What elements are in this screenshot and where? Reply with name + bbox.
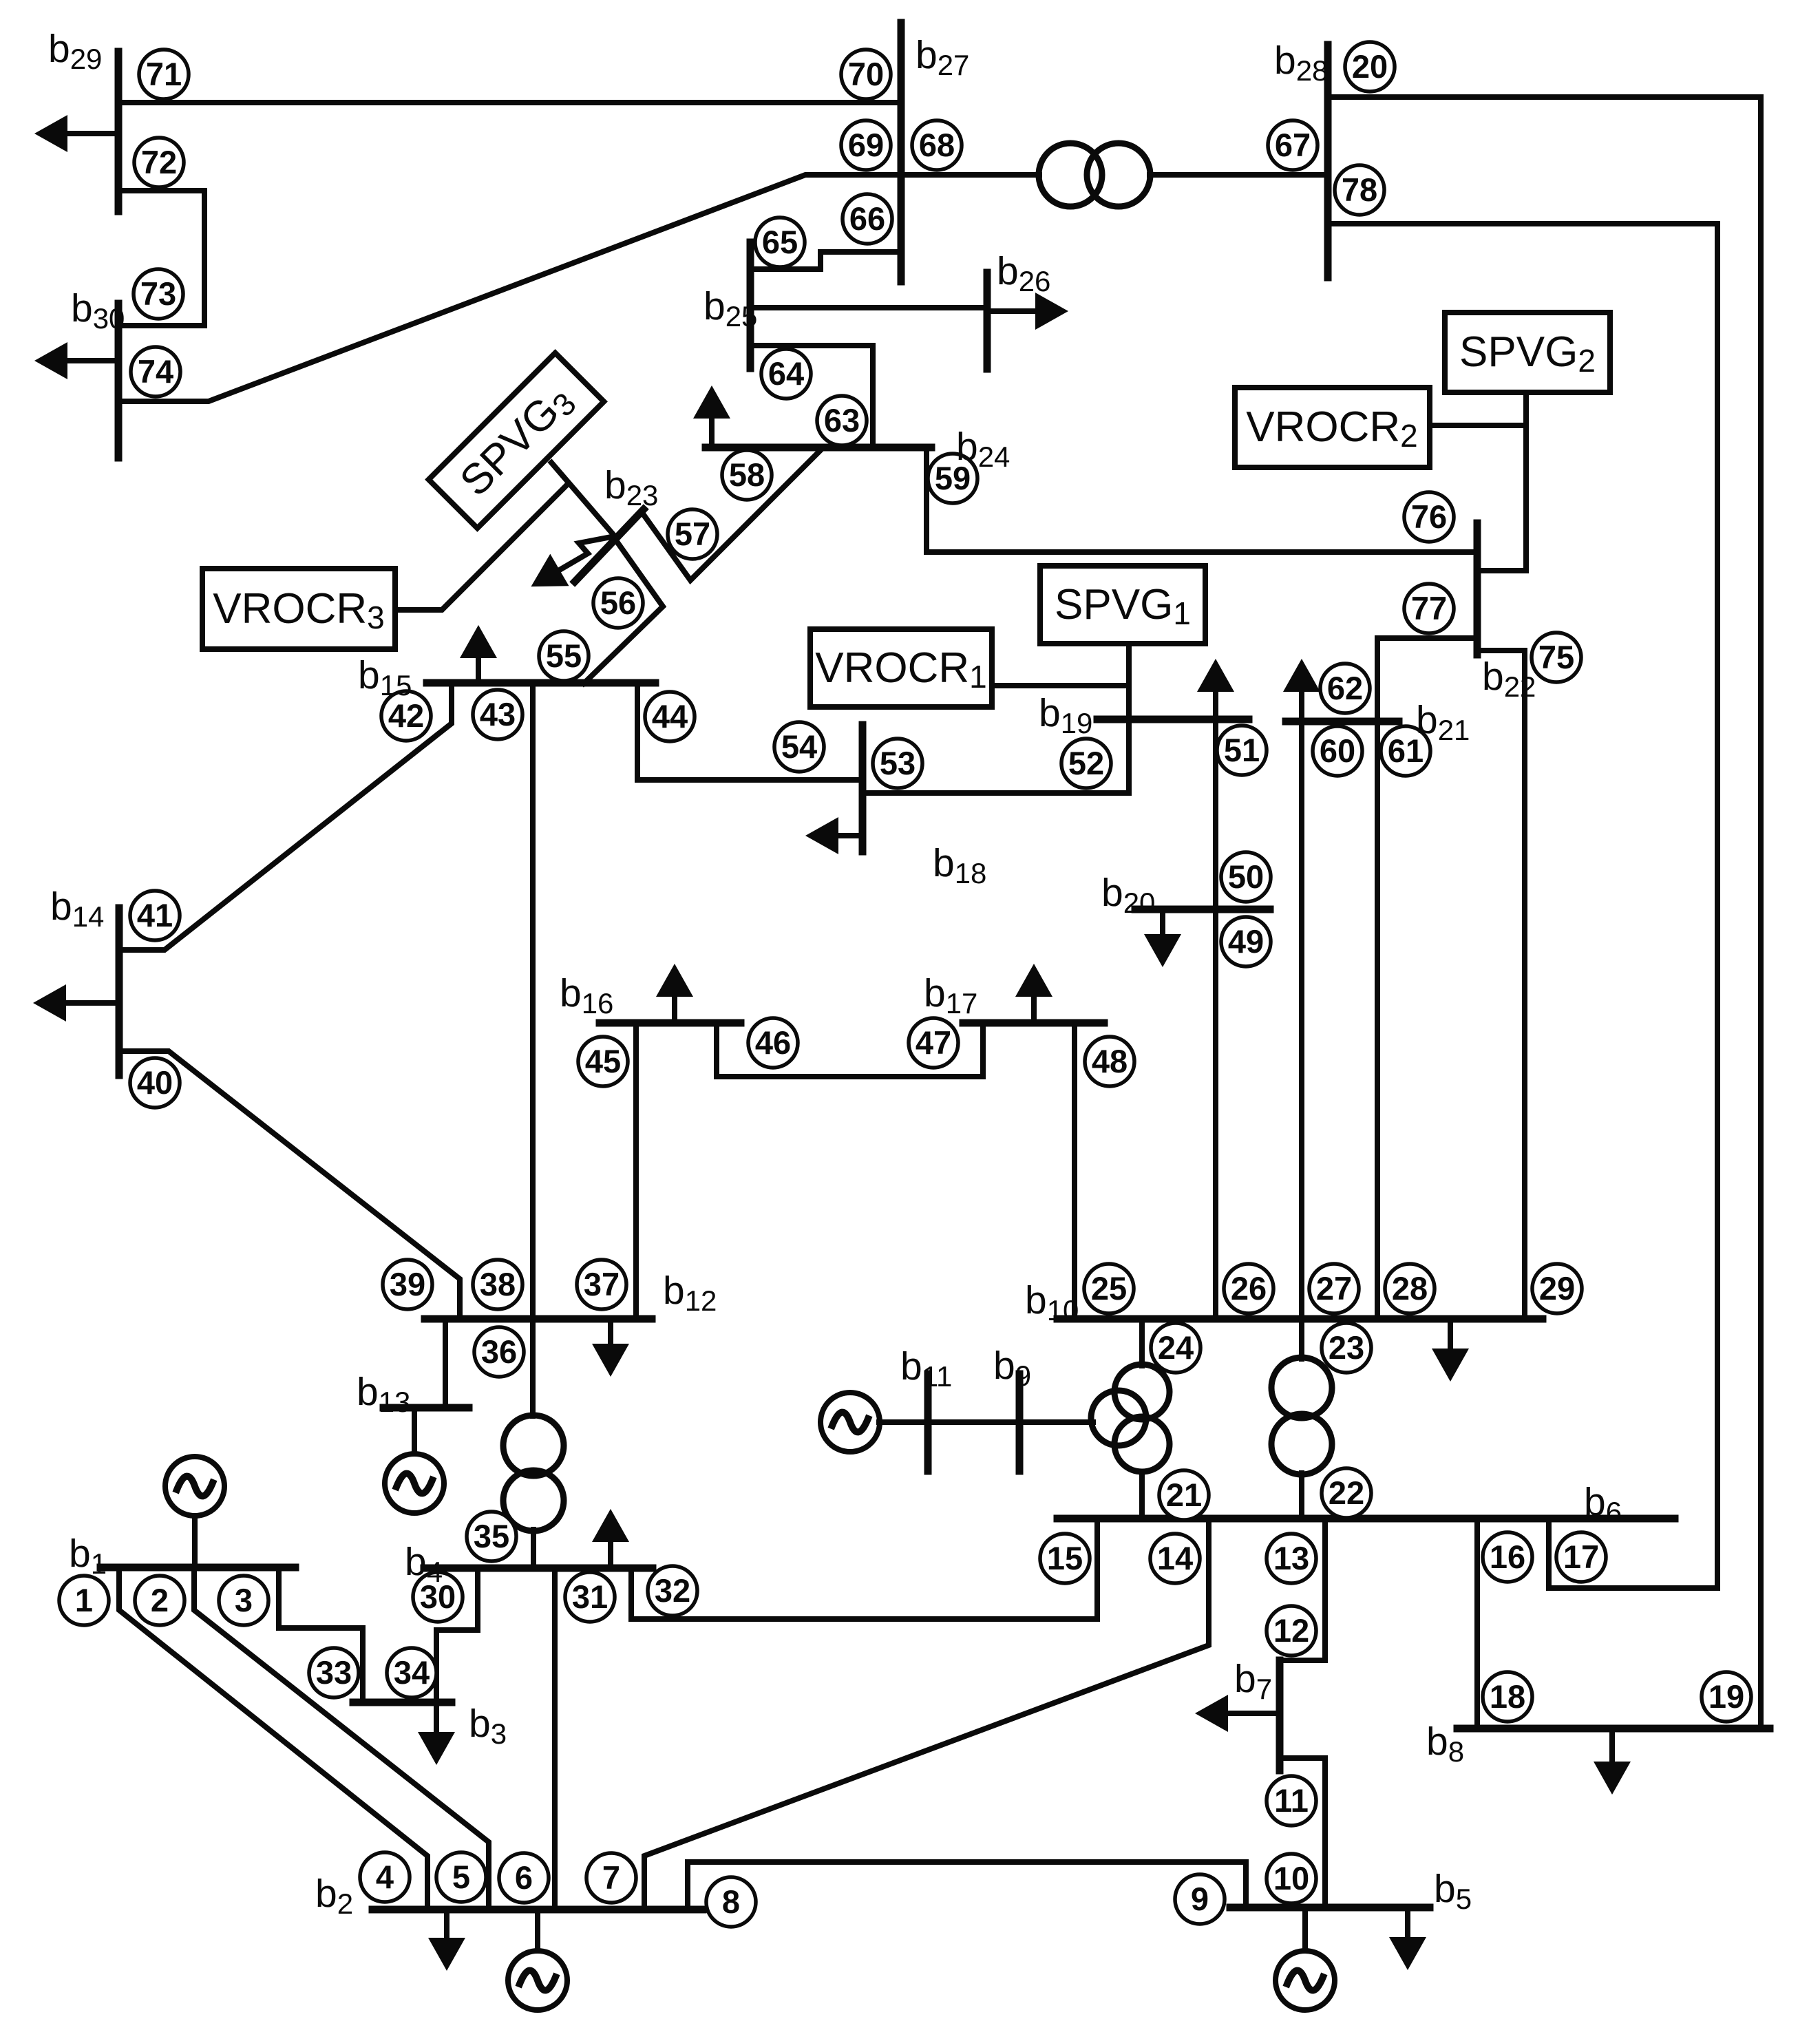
breaker label 15 <box>1040 1534 1090 1583</box>
wire line 78 b28 down right side <box>1328 224 1717 1588</box>
breaker label 42 <box>381 691 431 741</box>
breaker label 12 <box>1267 1606 1316 1656</box>
load arrow at b4 <box>608 1536 613 1568</box>
svg-text:32: 32 <box>655 1572 690 1609</box>
breaker label 67 <box>1268 120 1318 170</box>
svg-text:17: 17 <box>1563 1538 1599 1575</box>
svg-text:40: 40 <box>137 1064 173 1101</box>
svg-text:36: 36 <box>481 1333 517 1370</box>
breaker label 50 <box>1221 852 1271 902</box>
breaker label 24 <box>1151 1323 1200 1373</box>
transformer T24-21 three-winding <box>1091 1364 1170 1472</box>
bus b28 <box>1324 45 1332 277</box>
breaker label 31 <box>565 1572 615 1622</box>
breaker label 40 <box>130 1058 180 1108</box>
VROCR2 box <box>1235 388 1430 467</box>
wire line 46-47 b16 to b17 <box>717 1023 983 1077</box>
breaker label 19 <box>1702 1672 1751 1722</box>
wire line 8-9 b2 to b5 <box>688 1862 1246 1910</box>
bus b29 <box>115 52 123 211</box>
svg-text:38: 38 <box>480 1266 516 1302</box>
VROCR1 box <box>810 629 992 707</box>
bus b24 <box>706 444 931 452</box>
bus b27 <box>898 23 905 282</box>
svg-text:49: 49 <box>1228 923 1264 960</box>
load arrow at b7 <box>1223 1711 1280 1716</box>
breaker label 63 <box>817 396 867 445</box>
breaker label 14 <box>1150 1534 1200 1583</box>
breaker label 2 <box>135 1576 184 1625</box>
wire b11-b9-transformer tie <box>879 1419 1093 1425</box>
bus b2 <box>372 1906 703 1914</box>
wire line 43-38 b15 to b12 to transformer <box>530 683 536 1416</box>
svg-text:4: 4 <box>376 1859 394 1895</box>
svg-text:VROCR3: VROCR3 <box>213 585 385 635</box>
bus b10 <box>1057 1315 1543 1323</box>
breaker label 78 <box>1335 165 1384 215</box>
svg-text:44: 44 <box>652 698 688 734</box>
wire line 75-29 b22 to b10 <box>1477 651 1525 1319</box>
svg-text:29: 29 <box>1539 1270 1575 1307</box>
bus b3 <box>353 1699 452 1706</box>
breaker label 13 <box>1267 1534 1316 1583</box>
breaker label 10 <box>1267 1854 1316 1903</box>
breaker label 25 <box>1084 1264 1134 1313</box>
load arrow at b3 <box>434 1702 439 1737</box>
wire line 42-41 b15 to b14 <box>119 683 452 950</box>
wire line 30-34 b4 to b3 <box>436 1568 478 1702</box>
bus b4 <box>424 1565 653 1572</box>
breaker label 7 <box>586 1853 636 1903</box>
generator stem at b1 <box>192 1516 198 1567</box>
svg-text:25: 25 <box>1091 1270 1127 1307</box>
wire line 22 transformer to b6 <box>1299 1473 1304 1519</box>
svg-text:66: 66 <box>849 200 885 237</box>
breaker label 44 <box>645 692 695 741</box>
wire line 11-10 b7 to b5 <box>1280 1758 1325 1907</box>
VROCR3 box <box>202 569 395 649</box>
svg-text:20: 20 <box>1352 48 1388 85</box>
svg-text:26: 26 <box>1231 1270 1267 1307</box>
wire line 40-39 b14 to b12 <box>119 1051 460 1319</box>
breaker label 62 <box>1320 664 1370 713</box>
wire b25-b26 tie <box>750 305 987 310</box>
bus b19 <box>1097 716 1249 723</box>
breaker label 74 <box>131 347 180 396</box>
bus b22 <box>1474 523 1481 655</box>
svg-text:18: 18 <box>1490 1678 1525 1715</box>
wire line 36 b12 to b13 <box>443 1319 448 1408</box>
bus b20 <box>1135 906 1270 913</box>
svg-text:74: 74 <box>138 353 173 390</box>
svg-text:57: 57 <box>675 516 710 552</box>
wire line 62-60-61? vertical b21 riser <box>1375 638 1380 1319</box>
bus b6 <box>1057 1515 1675 1523</box>
breaker label 72 <box>134 138 184 187</box>
breaker label 56 <box>593 578 643 628</box>
breaker label 11 <box>1267 1776 1316 1826</box>
wire line 72-73 b29-b30 <box>118 191 204 326</box>
svg-text:62: 62 <box>1327 670 1363 706</box>
load arrow at b14 <box>61 1000 119 1006</box>
wire line 35 transformer to b4 <box>531 1530 536 1568</box>
breaker label 26 <box>1224 1264 1273 1313</box>
breaker label 17 <box>1556 1532 1606 1582</box>
wire line 32-15 b4 to b6 <box>631 1519 1097 1619</box>
svg-text:1: 1 <box>75 1582 93 1618</box>
bus b5 <box>1230 1904 1430 1912</box>
breaker label 60 <box>1313 726 1362 776</box>
wire line 17 b6 to line78 <box>1549 1519 1717 1588</box>
transformer T23-22 b10-b6 <box>1271 1357 1332 1474</box>
svg-text:71: 71 <box>146 56 182 92</box>
svg-text:VROCR1: VROCR1 <box>815 644 987 695</box>
breaker label 58 <box>722 450 772 500</box>
svg-text:55: 55 <box>546 637 582 674</box>
svg-text:12: 12 <box>1273 1612 1309 1649</box>
breaker label 39 <box>383 1260 432 1309</box>
wire line 56-55 b23 to b15 <box>584 538 663 684</box>
load arrow at b5 <box>1405 1907 1410 1943</box>
bus b11 <box>924 1374 932 1471</box>
wire line 64-63 b25 to b24 <box>750 346 873 447</box>
svg-text:5: 5 <box>452 1859 470 1895</box>
breaker label 36 <box>474 1327 524 1377</box>
breaker label 45 <box>578 1037 628 1086</box>
svg-text:52: 52 <box>1068 745 1104 781</box>
wire line 77 step to b22 <box>1377 635 1477 641</box>
breaker label 49 <box>1221 917 1271 966</box>
wire line 59-76 b24 to b22 <box>927 447 1477 552</box>
svg-text:SPVG1: SPVG1 <box>1055 581 1191 631</box>
svg-text:70: 70 <box>848 56 884 92</box>
wire line 13-12 b6 to b7 <box>1280 1519 1325 1660</box>
breaker label 69 <box>841 120 891 170</box>
wire line 51-26 b19 to b10 <box>1213 719 1218 1319</box>
bus b1 <box>100 1564 295 1572</box>
bus b21 <box>1286 718 1399 726</box>
svg-text:47: 47 <box>916 1024 951 1061</box>
load arrow at b19 <box>1213 686 1218 719</box>
generator stem at b5 <box>1302 1907 1308 1951</box>
wire VROCR2 link <box>1430 423 1526 428</box>
breaker label 23 <box>1322 1323 1371 1373</box>
breaker label 59 <box>928 454 977 503</box>
svg-text:8: 8 <box>722 1883 740 1920</box>
breaker label 35 <box>467 1512 516 1561</box>
breaker label 28 <box>1385 1264 1435 1313</box>
wire line 21 transformer to b6 <box>1139 1472 1145 1519</box>
svg-text:76: 76 <box>1411 498 1447 535</box>
breaker label 6 <box>499 1853 549 1903</box>
wire line 74-69 b30 to b27 <box>118 175 901 401</box>
bus b14 <box>116 908 123 1075</box>
bus b9 <box>1016 1374 1024 1471</box>
svg-text:65: 65 <box>762 224 798 260</box>
wire line 68 b27 to transformer <box>901 172 1039 178</box>
svg-text:50: 50 <box>1228 858 1264 895</box>
breaker label 43 <box>473 690 522 739</box>
svg-text:42: 42 <box>388 697 424 734</box>
breaker label 66 <box>843 194 892 244</box>
wire line 7-14 b2 to b6 <box>644 1519 1209 1910</box>
wire line 60-27 b21 to b10 <box>1299 721 1304 1359</box>
svg-text:46: 46 <box>755 1024 791 1061</box>
bus b16 <box>600 1019 741 1027</box>
svg-text:13: 13 <box>1273 1540 1309 1576</box>
load arrow at b29 <box>62 131 118 136</box>
bus b23 <box>575 509 644 582</box>
svg-text:24: 24 <box>1158 1329 1194 1366</box>
wire line 67 transformer to b28 <box>1150 172 1328 178</box>
breaker label 29 <box>1532 1264 1582 1313</box>
breaker label 1 <box>59 1576 109 1625</box>
bus b7 <box>1276 1660 1284 1770</box>
wire SPVG1 feeder <box>1126 644 1132 793</box>
wire line 31-6 b4 to b2 <box>552 1568 558 1910</box>
svg-text:41: 41 <box>137 897 173 933</box>
bus b30 <box>115 304 123 458</box>
breaker label 16 <box>1483 1532 1532 1582</box>
breaker label 77 <box>1404 584 1454 633</box>
svg-text:68: 68 <box>919 127 955 163</box>
wire line 2-5 b1 to b2 <box>194 1567 489 1910</box>
load arrow at b21 <box>1299 686 1304 721</box>
svg-text:15: 15 <box>1047 1540 1083 1576</box>
breaker label 38 <box>473 1260 522 1309</box>
generator at b2 <box>508 1951 567 2010</box>
svg-text:31: 31 <box>572 1578 608 1615</box>
svg-text:22: 22 <box>1329 1474 1364 1511</box>
svg-text:SPVG2: SPVG2 <box>1459 328 1596 379</box>
bus b13 <box>383 1404 469 1412</box>
svg-text:56: 56 <box>600 584 636 621</box>
breaker label 21 <box>1159 1470 1209 1520</box>
wire VROCR3 link <box>395 485 567 610</box>
breaker label 47 <box>909 1018 958 1068</box>
svg-text:35: 35 <box>474 1518 509 1554</box>
breaker label 70 <box>841 50 891 99</box>
breaker label 18 <box>1483 1672 1532 1722</box>
wire line 16-18 b6 to b8 <box>1474 1519 1480 1728</box>
breaker label 34 <box>387 1648 436 1698</box>
svg-text:64: 64 <box>768 355 804 392</box>
generator stem at b13 <box>412 1408 417 1454</box>
breaker label 20 <box>1345 42 1395 92</box>
svg-text:48: 48 <box>1092 1043 1128 1079</box>
bus b18 <box>859 725 867 852</box>
load arrow at b20 <box>1160 909 1165 940</box>
bus b8 <box>1457 1725 1770 1733</box>
svg-text:63: 63 <box>824 402 860 438</box>
wire SPVG2 feeder to b22 <box>1477 392 1526 571</box>
wire line 45-37 b16 to b12 <box>633 1023 639 1319</box>
svg-text:21: 21 <box>1166 1477 1202 1513</box>
generator stem at b2 <box>535 1910 540 1951</box>
load arrow at b17 <box>1031 991 1037 1023</box>
breaker label 5 <box>436 1852 486 1902</box>
generator at b5 <box>1276 1951 1335 2010</box>
svg-text:51: 51 <box>1224 732 1260 768</box>
breaker label 53 <box>873 739 922 788</box>
breaker label 3 <box>219 1576 268 1625</box>
svg-text:9: 9 <box>1191 1881 1209 1917</box>
SPVG3 box <box>429 353 604 529</box>
breaker label 55 <box>539 631 589 681</box>
wire line 20-19 b28 to b8 <box>1328 97 1761 1728</box>
breaker label 37 <box>577 1260 626 1309</box>
breaker label 76 <box>1404 492 1454 542</box>
breaker label 51 <box>1217 726 1267 775</box>
breaker label 52 <box>1061 739 1111 788</box>
breaker label 4 <box>360 1852 410 1902</box>
breaker label 46 <box>748 1018 798 1068</box>
fault arrow at b23 <box>555 537 611 573</box>
breaker label 9 <box>1175 1874 1225 1924</box>
wire line 48-25? b17 to b10 <box>1072 1023 1077 1319</box>
wire line 53 b18 to SPVG1 feeder <box>863 790 1129 796</box>
breaker label 41 <box>130 891 180 940</box>
load arrow at b10 <box>1448 1319 1453 1354</box>
svg-text:10: 10 <box>1273 1860 1309 1896</box>
wire SPVG3 stub <box>551 463 615 537</box>
svg-text:11: 11 <box>1274 1782 1309 1819</box>
transformer T67-68 b27-b28 <box>1039 143 1150 207</box>
breaker label 64 <box>761 349 811 399</box>
transformer T35 b12-b4 <box>503 1415 564 1531</box>
breaker label 33 <box>309 1648 359 1698</box>
svg-text:14: 14 <box>1157 1540 1193 1576</box>
wire line 71 b29-b27 <box>118 100 901 105</box>
breaker label 27 <box>1309 1264 1359 1313</box>
breaker label 32 <box>648 1566 697 1616</box>
breaker label 22 <box>1322 1468 1371 1518</box>
svg-text:45: 45 <box>585 1043 621 1079</box>
load arrow at b18 <box>833 833 863 838</box>
load arrow at b12 <box>608 1319 613 1349</box>
svg-text:16: 16 <box>1490 1538 1525 1575</box>
breaker label 73 <box>134 269 183 319</box>
wire line 66-65 b27 to b25 <box>750 252 901 269</box>
load arrow at b26 <box>987 308 1041 314</box>
breaker label 61 <box>1381 726 1430 776</box>
breaker label 75 <box>1532 633 1581 682</box>
load arrow at b2 <box>444 1910 449 1943</box>
breaker label 54 <box>774 722 824 772</box>
load arrow at b24 <box>709 413 715 447</box>
svg-text:77: 77 <box>1411 590 1447 626</box>
SPVG2 box <box>1445 313 1610 392</box>
breaker label 71 <box>139 50 189 99</box>
svg-text:58: 58 <box>729 456 765 493</box>
breaker label 57 <box>668 509 717 559</box>
svg-text:39: 39 <box>390 1266 425 1302</box>
bus b12 <box>425 1315 652 1323</box>
svg-text:7: 7 <box>602 1859 620 1896</box>
svg-text:54: 54 <box>781 728 817 765</box>
svg-text:28: 28 <box>1392 1270 1428 1307</box>
wire line 1-4 b1 to b2 <box>119 1567 427 1910</box>
svg-text:78: 78 <box>1342 171 1377 208</box>
generator at b11 <box>821 1393 880 1452</box>
bus b17 <box>963 1019 1104 1027</box>
bus b25 <box>747 242 754 368</box>
svg-text:75: 75 <box>1538 639 1574 675</box>
load arrow at b30 <box>62 358 118 363</box>
svg-text:37: 37 <box>584 1266 620 1302</box>
svg-text:69: 69 <box>848 127 884 163</box>
wire line 3-33 b1 to b3 <box>279 1567 363 1702</box>
svg-text:33: 33 <box>316 1654 352 1691</box>
svg-text:6: 6 <box>515 1859 533 1896</box>
bus b26 <box>984 273 991 369</box>
generator at b13 <box>385 1454 444 1513</box>
SPVG1 box <box>1040 566 1205 644</box>
svg-text:60: 60 <box>1320 732 1355 769</box>
breaker label 68 <box>912 120 962 170</box>
generator at b1 <box>165 1457 224 1516</box>
svg-text:34: 34 <box>394 1654 430 1691</box>
svg-text:VROCR2: VROCR2 <box>1246 403 1418 454</box>
svg-text:53: 53 <box>880 745 916 781</box>
svg-text:2: 2 <box>151 1582 169 1618</box>
wire line 24 b10 to transformer <box>1139 1319 1145 1366</box>
svg-text:73: 73 <box>140 275 176 312</box>
svg-text:23: 23 <box>1329 1329 1364 1366</box>
breaker label 30 <box>413 1572 463 1622</box>
svg-text:67: 67 <box>1275 127 1311 163</box>
svg-text:19: 19 <box>1708 1678 1744 1715</box>
bus b15 <box>427 679 655 687</box>
breaker label 8 <box>706 1877 756 1927</box>
svg-text:3: 3 <box>235 1582 253 1618</box>
breaker label 48 <box>1085 1037 1134 1086</box>
svg-text:43: 43 <box>480 696 516 732</box>
svg-text:72: 72 <box>141 144 177 180</box>
svg-text:27: 27 <box>1316 1270 1352 1307</box>
load arrow at b8 <box>1609 1728 1615 1767</box>
wire line 58-57 b24 to b23 <box>642 447 823 580</box>
breaker label 65 <box>755 218 805 267</box>
load arrow at b15 <box>476 653 481 683</box>
wire VROCR1 link <box>992 683 1129 688</box>
wire line 44-54 b15 to b18 <box>637 683 863 780</box>
load arrow at b16 <box>672 991 677 1023</box>
